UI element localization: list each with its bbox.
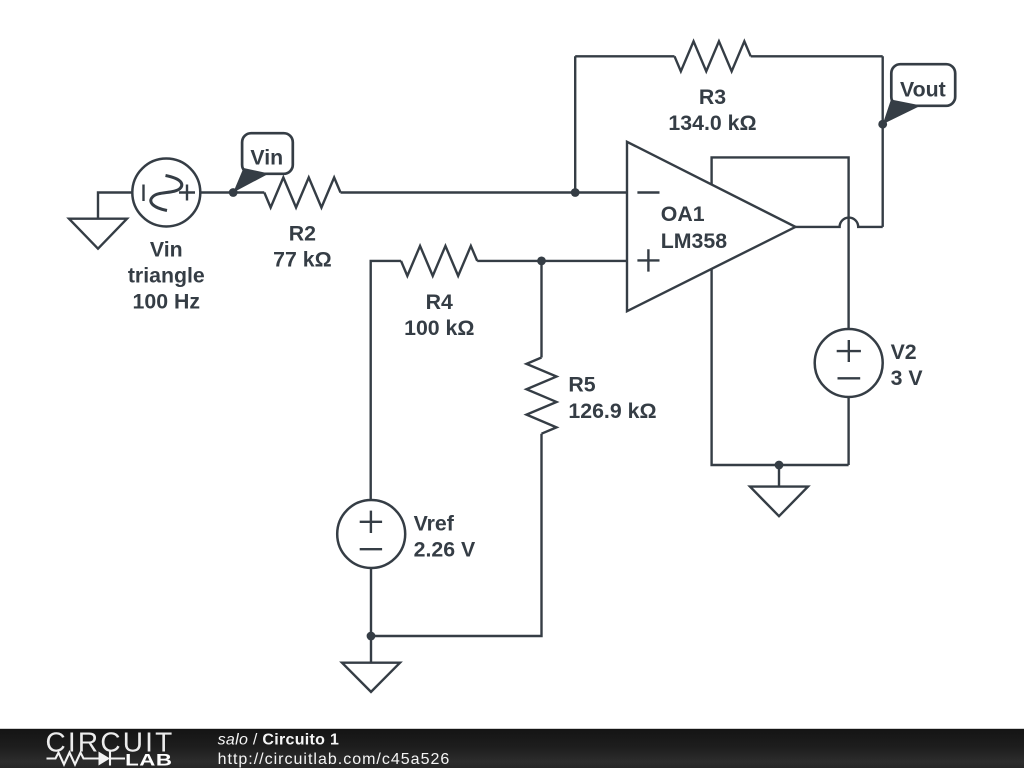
wire feedback left vertical — [574, 56, 576, 192]
logo diode triangle — [99, 752, 111, 766]
wire plus input from R4 junction — [542, 260, 628, 262]
wire op-amp output with hop — [796, 218, 883, 227]
resistor R2 zigzag — [264, 178, 340, 208]
resistor R5 zigzag (vertical) — [527, 358, 557, 434]
svg-text:LM358: LM358 — [661, 229, 727, 253]
wire Vin source to left ground — [98, 193, 132, 219]
node flag Vout box — [891, 64, 955, 106]
junction dot plus-input/R5 — [537, 257, 546, 266]
svg-text:100 Hz: 100 Hz — [133, 290, 200, 314]
ground (below V2) triangle — [750, 487, 808, 517]
ground (below Vref) stem — [370, 636, 372, 663]
junction dot Vref ground — [367, 632, 376, 641]
resistor R3 zigzag — [675, 41, 751, 71]
ground (left of Vin source) — [69, 219, 127, 249]
V2 minus sign — [838, 377, 861, 379]
node flag Vin tail — [233, 168, 269, 193]
resistor R4 zigzag — [401, 246, 477, 276]
svg-text:77 kΩ: 77 kΩ — [273, 247, 332, 271]
svg-text:3 V: 3 V — [891, 366, 924, 390]
voltage source Vref (circle) — [337, 500, 405, 568]
svg-text:salo / Circuito 1: salo / Circuito 1 — [218, 732, 340, 749]
svg-text:R5: R5 — [568, 373, 595, 397]
svg-text:126.9 kΩ: 126.9 kΩ — [568, 399, 656, 423]
svg-text:V2: V2 — [891, 340, 917, 364]
Vin source minus bar — [142, 185, 144, 202]
svg-text:R4: R4 — [426, 290, 453, 314]
svg-text:http://circuitlab.com/c45a526: http://circuitlab.com/c45a526 — [218, 751, 451, 768]
svg-text:2.26 V: 2.26 V — [414, 537, 476, 561]
ground (below Vref) triangle — [342, 663, 400, 692]
voltage source Vin (circle) — [132, 159, 200, 227]
svg-text:100 kΩ: 100 kΩ — [404, 316, 474, 340]
Vref plus sign — [360, 511, 382, 533]
Vin source plus sign — [179, 185, 195, 201]
svg-text:OA1: OA1 — [661, 202, 705, 226]
wire R4 to junction — [477, 260, 541, 262]
svg-text:R3: R3 — [699, 85, 726, 109]
wire V2 bottom — [847, 397, 849, 465]
Vref minus sign — [360, 548, 382, 550]
svg-text:Vin: Vin — [150, 238, 183, 262]
ground (below V2) stem — [778, 465, 780, 487]
voltage source V2 (circle) — [815, 329, 883, 397]
wire top to R3 — [575, 55, 674, 57]
Vin source waveform squiggle — [151, 176, 182, 211]
logo resistor-diode art — [47, 752, 126, 766]
junction dot node Vin — [229, 188, 238, 197]
junction dot V2 ground — [775, 461, 784, 470]
node flag Vout tail — [883, 100, 921, 125]
V2 plus sign — [837, 340, 861, 362]
svg-text:Vout: Vout — [900, 77, 946, 101]
op-amp OA1 triangle — [627, 142, 796, 311]
wire Vout vertical — [882, 56, 884, 227]
wire R3 to Vout corner — [751, 55, 883, 57]
wire Vref bottom — [370, 568, 372, 636]
wire R4 left — [371, 261, 401, 499]
wire op-amp bottom power pin — [712, 269, 849, 465]
op-amp minus symbol — [637, 191, 659, 193]
op-amp plus symbol — [637, 249, 659, 271]
wire R5 bottom to Vref junction — [371, 434, 542, 636]
svg-text:Vin: Vin — [250, 145, 283, 169]
svg-text:R2: R2 — [289, 221, 316, 245]
wire Vin source to R2 — [200, 191, 264, 193]
junction dot minus-input/feedback — [571, 188, 580, 197]
svg-text:LAB: LAB — [125, 751, 172, 768]
wire op-amp top power pin — [712, 157, 849, 328]
junction dot Vout — [878, 120, 887, 129]
wire R2 to op-amp minus input — [341, 191, 628, 193]
svg-text:Vref: Vref — [414, 511, 455, 535]
node flag Vin box — [242, 133, 293, 174]
wire R5 top — [540, 261, 542, 358]
svg-text:triangle: triangle — [128, 264, 205, 288]
svg-text:134.0 kΩ: 134.0 kΩ — [668, 111, 756, 135]
